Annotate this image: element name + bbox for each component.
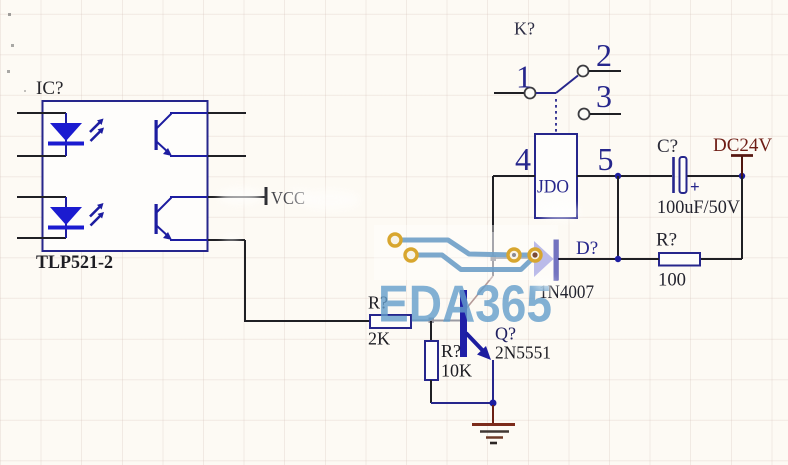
- svg-text:C?: C?: [657, 136, 678, 157]
- svg-text:100: 100: [658, 270, 686, 291]
- svg-text:4: 4: [515, 141, 531, 177]
- svg-text:10K: 10K: [441, 361, 472, 381]
- svg-text:2N5551: 2N5551: [495, 343, 551, 363]
- svg-text:DC24V: DC24V: [713, 135, 772, 156]
- svg-text:+: +: [690, 177, 700, 196]
- svg-text:EDA365: EDA365: [378, 276, 552, 334]
- svg-text:3: 3: [596, 78, 612, 114]
- svg-text:1: 1: [516, 59, 532, 95]
- svg-text:JDO: JDO: [537, 177, 569, 198]
- svg-text:R?: R?: [656, 230, 677, 251]
- svg-text:R?: R?: [441, 341, 461, 361]
- svg-text:TLP521-2: TLP521-2: [36, 252, 113, 273]
- svg-text:D?: D?: [576, 238, 598, 259]
- svg-text:K?: K?: [514, 19, 535, 39]
- svg-text:100uF/50V: 100uF/50V: [657, 197, 740, 218]
- svg-text:IC?: IC?: [36, 78, 63, 99]
- svg-text:2: 2: [596, 37, 612, 73]
- svg-text:5: 5: [598, 141, 614, 177]
